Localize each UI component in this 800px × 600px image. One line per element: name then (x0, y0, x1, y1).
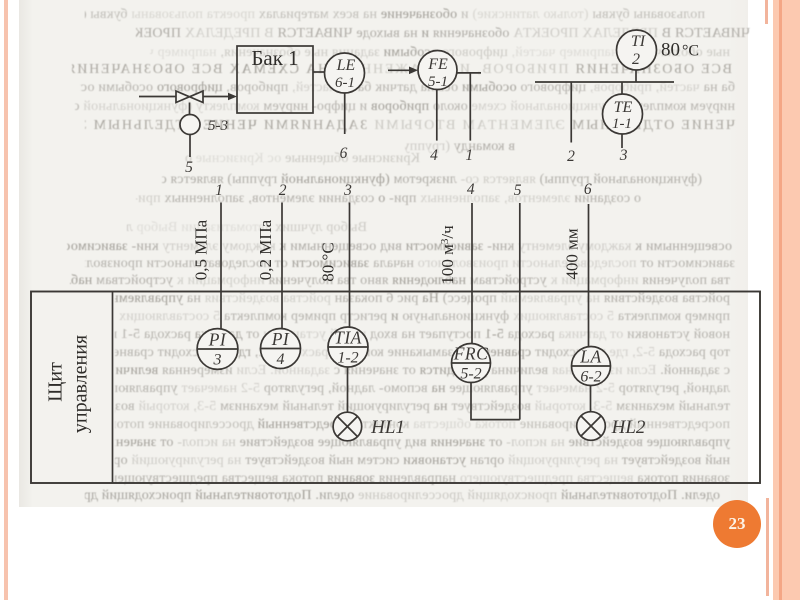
svg-text:5: 5 (514, 182, 522, 199)
svg-text:LA: LA (579, 347, 601, 367)
wire TI stem (635, 70, 637, 82)
wire below TE (621, 134, 623, 148)
lamp HL2 (577, 412, 606, 441)
svg-text:1: 1 (215, 182, 223, 199)
wire line2b (281, 203, 283, 329)
left pink line (4, 0, 8, 600)
svg-text:400 мм: 400 мм (563, 228, 582, 280)
wire FE right down (457, 73, 481, 141)
temp sensor TE 1-1 (603, 94, 643, 134)
svg-text:2: 2 (567, 148, 575, 165)
wire below LE (344, 93, 346, 134)
right pink band (773, 0, 800, 600)
flow sensor FE 5-1 (418, 51, 457, 91)
wire below FE (436, 89, 438, 140)
svg-text:6: 6 (584, 181, 592, 198)
svg-text:TI: TI (631, 33, 646, 50)
svg-text:5: 5 (185, 159, 193, 176)
svg-text:6-1: 6-1 (335, 75, 355, 91)
wire valve stem (189, 103, 191, 115)
svg-text:4: 4 (430, 147, 438, 164)
svg-text:TIA: TIA (334, 328, 362, 348)
wire pipe stub (535, 81, 674, 83)
indicator TIA 1-2 (328, 327, 368, 367)
right salmon stub bottom (766, 498, 769, 596)
wire line5 (519, 203, 521, 420)
wire arrow into FE (388, 67, 418, 75)
svg-text:PI: PI (208, 330, 227, 350)
gauge PI 4 (261, 329, 301, 369)
svg-text:100 м3/ч: 100 м3/ч (438, 225, 457, 285)
wire LA to HL2 (590, 386, 592, 412)
wire tank to LE (313, 71, 325, 73)
wire line6 (588, 204, 590, 346)
svg-text:1: 1 (465, 147, 473, 164)
svg-text:2: 2 (279, 182, 287, 199)
panel box (31, 292, 760, 484)
svg-text:5-3: 5-3 (208, 118, 228, 134)
svg-text:2: 2 (632, 51, 640, 68)
svg-text:6-2: 6-2 (580, 369, 601, 386)
svg-text:6: 6 (340, 145, 348, 162)
svg-text:3: 3 (619, 147, 628, 164)
wire FRC loop (471, 383, 520, 420)
panel divider (112, 292, 114, 484)
gauge PI 3 (197, 329, 238, 370)
lamp HL1 (333, 412, 362, 441)
wire inlet (139, 96, 176, 98)
regulator FRC 5-2 (452, 344, 491, 383)
level sensor LE 6-1 (325, 53, 365, 93)
svg-text:4: 4 (467, 181, 475, 198)
wire TIA to HL1 (347, 367, 349, 412)
svg-text:Щит: Щит (45, 362, 67, 402)
wire line 2 drop (570, 82, 572, 143)
svg-text:PI: PI (271, 329, 290, 349)
indicator LA 6-2 (572, 347, 611, 386)
tank Бак 1 (237, 46, 313, 113)
svg-text:1-1: 1-1 (612, 116, 632, 132)
thermometer TI 2 (617, 30, 657, 70)
wire below 5-3 (189, 135, 191, 158)
svg-text:80 °С: 80 °С (319, 242, 338, 281)
right band dark stripe (779, 0, 781, 600)
svg-text:Бак 1: Бак 1 (251, 46, 298, 70)
valve (176, 91, 203, 103)
actuator 5-3 (180, 115, 200, 135)
slide number 23 (713, 500, 761, 548)
scan paper (19, 0, 748, 507)
svg-text:HL2: HL2 (611, 417, 646, 438)
svg-text:80: 80 (661, 40, 680, 61)
svg-text:3: 3 (213, 352, 222, 369)
svg-text:4: 4 (277, 351, 285, 368)
wire TE stem (621, 82, 623, 94)
svg-text:5-1: 5-1 (428, 74, 448, 90)
svg-text:0,2 МПа: 0,2 МПа (256, 219, 275, 280)
svg-text:°С: °С (682, 43, 699, 60)
wire line1 (220, 203, 222, 329)
wire line4 (471, 203, 473, 343)
svg-text:1-2: 1-2 (337, 350, 358, 367)
wire line3 (349, 203, 351, 327)
svg-text:FE: FE (427, 56, 448, 73)
right salmon stub top (765, 0, 768, 24)
svg-text:HL1: HL1 (370, 417, 405, 438)
svg-text:управления: управления (70, 335, 92, 433)
svg-text:3: 3 (343, 182, 352, 199)
svg-text:LE: LE (336, 57, 356, 74)
svg-text:5-2: 5-2 (460, 366, 481, 383)
svg-text:FRC: FRC (453, 344, 489, 364)
wire valve to tank (203, 93, 237, 101)
svg-text:TE: TE (614, 99, 633, 116)
svg-text:0,5 МПа: 0,5 МПа (192, 219, 211, 280)
